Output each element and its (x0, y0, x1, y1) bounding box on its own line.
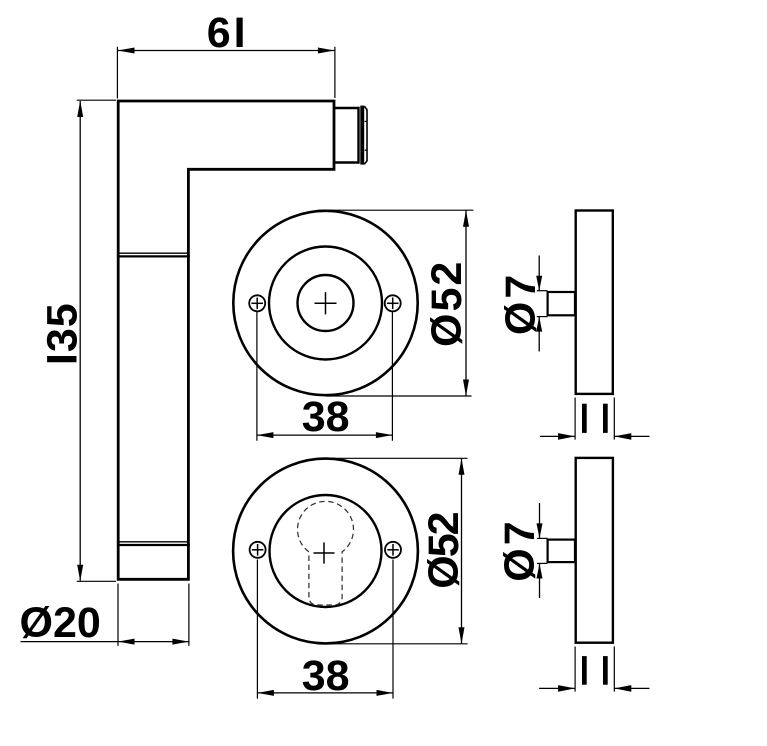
top rosette D52 bottom arrow (463, 380, 469, 397)
top side view spindle stub (548, 292, 575, 315)
svg-text:Ø20: Ø20 (20, 599, 101, 647)
top rosette middle circle (269, 247, 382, 360)
top rosette 38 dimension line (257, 434, 393, 436)
bottom rosette center cross (314, 552, 335, 554)
bottom rosette outer circle (233, 459, 418, 644)
svg-text:6I: 6I (207, 9, 249, 57)
top rosette center cross (315, 302, 337, 304)
top side view D7 lower extension (537, 316, 548, 318)
top rosette 38 right arrow (376, 432, 393, 438)
bottom rosette 38 left arrow (257, 690, 274, 696)
dimension 135 bottom extension line (77, 580, 116, 582)
top rosette 38 left arrow (257, 432, 274, 438)
dimension 135 line (79, 101, 81, 581)
top side view D7 upper extension (537, 290, 548, 292)
top rosette D52 top arrow (463, 210, 469, 227)
top rosette left screw (249, 295, 265, 311)
bottom side view 11 left extension (574, 647, 576, 692)
svg-text:I35: I35 (39, 302, 87, 365)
dimension D20 right extension line (188, 584, 190, 646)
top side view 11 left extension (574, 398, 576, 440)
bottom side view D7 upper arrow (537, 523, 543, 538)
top rosette D52 bottom extension line (326, 395, 472, 397)
top side view D7 lower line (538, 317, 540, 352)
bottom side view 11 right extension (613, 647, 615, 692)
bottom rosette D52 top extension line (326, 457, 468, 459)
bottom rosette euro cylinder dashed profile (298, 501, 354, 605)
dimension 135 top extension line (77, 99, 116, 101)
bottom rosette right screw (385, 542, 401, 558)
dimension 61 right extension line (334, 47, 336, 98)
top rosette D52 top extension line (318, 209, 473, 211)
door handle L-shaped lever outline (118, 101, 334, 579)
bottom side view rosette rectangle (576, 458, 613, 643)
top side view 11 dimension right segment (614, 435, 649, 437)
top side view 11 text bars (582, 404, 587, 433)
top side view 11 right arrow (614, 433, 631, 440)
bottom side view D7 lower arrow (537, 564, 543, 579)
dimension D20 left arrow (118, 639, 135, 645)
bottom rosette D52 top arrow (459, 458, 465, 475)
bottom side view 11 text bars (582, 656, 587, 685)
bottom side view D7 upper line (539, 503, 541, 538)
bottom side view spindle stub (548, 540, 575, 563)
top side view 11 dimension left segment (540, 435, 575, 437)
svg-text:Ø52: Ø52 (423, 260, 471, 347)
handle collar bar (360, 106, 364, 165)
dimension 61 line (118, 50, 334, 52)
bottom side view 11 dimension left segment (539, 687, 575, 689)
dimension 135 bottom arrow (77, 565, 83, 582)
bottom rosette D52 dimension line (461, 459, 463, 644)
svg-text:Ø52: Ø52 (420, 512, 468, 588)
dimension 61 right arrow (318, 48, 335, 54)
top rosette outer circle (233, 211, 417, 395)
dimension 61 left arrow (118, 48, 135, 54)
bottom rosette 38 dimension line (257, 692, 393, 694)
top side view 11 left arrow (558, 433, 575, 440)
top side view D7 upper arrow (536, 276, 542, 291)
top side view D7 lower arrow (536, 317, 542, 332)
svg-text:Ø7: Ø7 (496, 518, 544, 581)
bottom rosette D52 bottom arrow (459, 627, 465, 644)
bottom side view D7 upper extension (537, 537, 548, 539)
dimension D20 line with leader (21, 641, 189, 643)
top side view D7 dimension upper line (538, 256, 540, 291)
svg-text:Ø7: Ø7 (497, 272, 545, 335)
bottom rosette 38 right extension line (392, 560, 394, 699)
handle end cap chamfered (364, 106, 367, 164)
handle neck top edge (334, 107, 358, 109)
handle joint line upper thin (118, 252, 189, 254)
top rosette right screw (385, 295, 401, 311)
bottom side view 11 left arrow (558, 685, 575, 692)
bottom side view D7 lower line (539, 564, 541, 598)
bottom rosette middle circle (270, 495, 382, 607)
dimension 135 top arrow (77, 101, 83, 118)
dimension D20 left extension line (117, 584, 119, 646)
bottom rosette D52 bottom extension line (332, 643, 468, 645)
end cap tick lower (365, 149, 368, 151)
handle neck bottom edge (334, 161, 358, 163)
bottom rosette 38 right arrow (377, 690, 394, 696)
top rosette 38 left extension line (256, 312, 258, 441)
handle neck right edge (357, 107, 359, 164)
bottom rosette 38 left extension line (256, 560, 258, 699)
bottom side view D7 lower extension (537, 562, 548, 564)
top side view 11 right extension (613, 398, 615, 440)
bottom side view 11 right arrow (614, 685, 631, 692)
handle joint line upper thick (118, 255, 190, 257)
svg-text:38: 38 (302, 652, 350, 700)
handle joint line lower thick (118, 544, 190, 546)
svg-text:38: 38 (302, 393, 350, 441)
top rosette inner circle (298, 275, 354, 331)
top rosette 38 right extension line (391, 312, 393, 441)
top rosette D52 dimension line (465, 211, 467, 396)
bottom side view 11 dimension right segment (614, 687, 649, 689)
dimension D20 right arrow (172, 639, 189, 645)
handle joint line lower thin (118, 541, 189, 543)
end cap tick upper (365, 120, 368, 122)
dimension 61 left extension line (116, 47, 118, 99)
top side view rosette rectangle (576, 211, 613, 394)
bottom rosette left screw (250, 542, 266, 558)
